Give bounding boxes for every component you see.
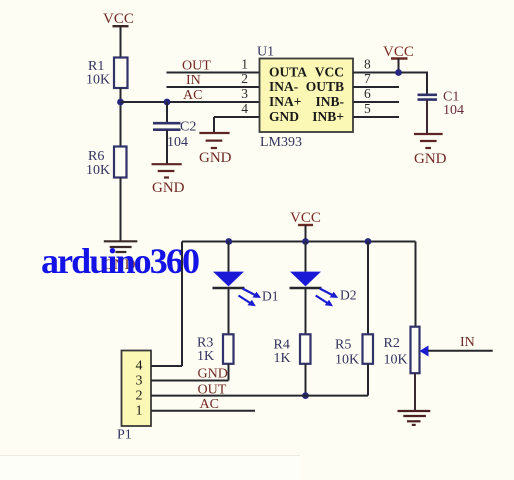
svg-text:D1: D1 [262,289,279,304]
svg-text:IN: IN [186,73,201,88]
resistor R5 [335,334,373,367]
potentiometer R2 [384,327,429,374]
svg-text:VCC: VCC [290,210,321,226]
wire VCC rail (bottom) [182,241,416,243]
wire P1 pin 1 (AC net) [151,410,255,412]
svg-text:104: 104 [443,103,464,118]
wire R6 to ground [120,178,122,242]
wire R2 to ground [414,373,416,410]
svg-text:INB-: INB- [315,94,344,109]
power VCC (bottom) [290,210,321,242]
svg-text:10K: 10K [86,163,110,178]
ground (below C1) [414,134,447,167]
LED D2 [290,272,357,307]
wire IN to R2 wiper [428,350,493,352]
faint scan artifact line (bottom left) [0,455,300,457]
svg-text:INA+: INA+ [269,94,301,109]
svg-text:3: 3 [136,374,143,389]
svg-text:OUT: OUT [182,59,211,74]
svg-text:R2: R2 [384,336,400,351]
svg-text:VCC: VCC [103,11,134,27]
svg-text:2: 2 [241,71,248,86]
wire net IN to U1 pin 2 [167,86,260,88]
wire D2 to R4 [305,289,307,334]
svg-text:10K: 10K [86,73,110,88]
svg-text:OUT: OUT [198,383,227,398]
wire junction to R6 [120,102,122,147]
svg-text:GND: GND [414,151,447,167]
svg-text:2: 2 [136,389,143,404]
resistor R4 [274,334,311,366]
svg-text:GND: GND [269,109,299,124]
wire VCC to R1 [120,26,122,57]
ground (below R6) [103,241,137,273]
svg-text:GND: GND [199,150,232,166]
svg-text:P1: P1 [117,428,132,443]
wire P1 pin 4 [151,365,182,367]
svg-text:104: 104 [167,135,188,150]
svg-text:OUTB: OUTB [306,79,344,94]
svg-text:GND: GND [152,180,185,196]
wire D1 to R3 [228,289,230,334]
wire U1 pin 5 stub [353,116,399,118]
svg-text:GND: GND [198,367,228,382]
svg-text:IN: IN [460,335,475,350]
wire rail to P1 pin 4 [181,242,183,367]
svg-text:5: 5 [364,101,371,116]
LED D1 [213,272,279,307]
wire rail to R2 [415,242,417,327]
wire R3 to P1 pin 3 [228,364,230,381]
wire junction to C2 [166,102,168,123]
wire R4 to OUT rail [305,364,307,396]
svg-text:3: 3 [241,86,248,101]
svg-text:1K: 1K [274,351,291,366]
resistor R1 [86,58,128,89]
svg-text:R5: R5 [335,338,351,353]
svg-text:C2: C2 [180,120,196,135]
svg-text:10K: 10K [335,353,359,368]
resistor R3 [197,334,234,364]
svg-text:8: 8 [364,57,371,72]
svg-text:4: 4 [241,101,248,116]
svg-text:INB+: INB+ [312,109,344,124]
node junction R1/R6/AC [117,99,124,106]
wire C1 to ground [426,100,428,134]
wire rail to R5 [367,242,369,335]
svg-text:VCC: VCC [315,65,344,80]
power VCC (top left) [103,11,134,27]
ground (below C2) [152,164,185,196]
connector P1 [117,351,151,443]
svg-text:LM393: LM393 [260,135,302,150]
svg-text:4: 4 [136,359,143,374]
svg-text:10K: 10K [384,353,408,368]
svg-text:AC: AC [200,397,219,412]
ground (below R2) [398,411,431,425]
svg-text:INA-: INA- [269,79,298,94]
svg-text:1: 1 [136,404,143,419]
resistor R6 [86,147,127,179]
node junction VCC/pin8 [395,69,402,76]
svg-text:OUTA: OUTA [269,65,307,80]
wire U1 pin 7 stub [353,86,399,88]
svg-text:arduino360: arduino360 [41,241,199,281]
wire P1 pin 3 (GND net) [151,380,229,382]
wire U1 pin 8 to C1 [353,73,427,95]
wire net OUT to U1 pin 1 [167,72,260,74]
ground (U1 pin 4) [199,117,232,166]
wire P1 pin 2 (OUT net) [151,395,368,397]
power VCC (right) [383,44,414,72]
wire ground to U1 pin 4 [214,116,260,118]
wire R5 to OUT rail [367,364,369,396]
svg-text:U1: U1 [257,45,274,60]
wire net AC junction to U1 pin 3 [121,101,260,103]
svg-text:1: 1 [241,57,248,72]
svg-text:R6: R6 [88,149,104,164]
wire rail to D2 [305,242,307,272]
svg-text:AC: AC [183,88,202,103]
wire R1 to junction [120,88,122,102]
svg-text:D2: D2 [340,288,357,303]
op-amp U1 LM393 [257,45,353,151]
node D2/VCC branch [302,238,309,245]
wire C2 to ground [166,130,168,164]
svg-text:7: 7 [364,71,371,86]
wire rail to D1 [228,242,230,272]
capacitor C1 [418,90,465,119]
svg-text:1K: 1K [197,349,214,364]
node D1 branch [225,238,232,245]
node R4/OUT rail [302,392,309,399]
node R5 branch [365,238,372,245]
svg-text:6: 6 [364,86,371,101]
node junction C2/AC [164,99,171,106]
capacitor C2 [153,120,196,151]
wire U1 pin 6 stub [353,101,399,103]
